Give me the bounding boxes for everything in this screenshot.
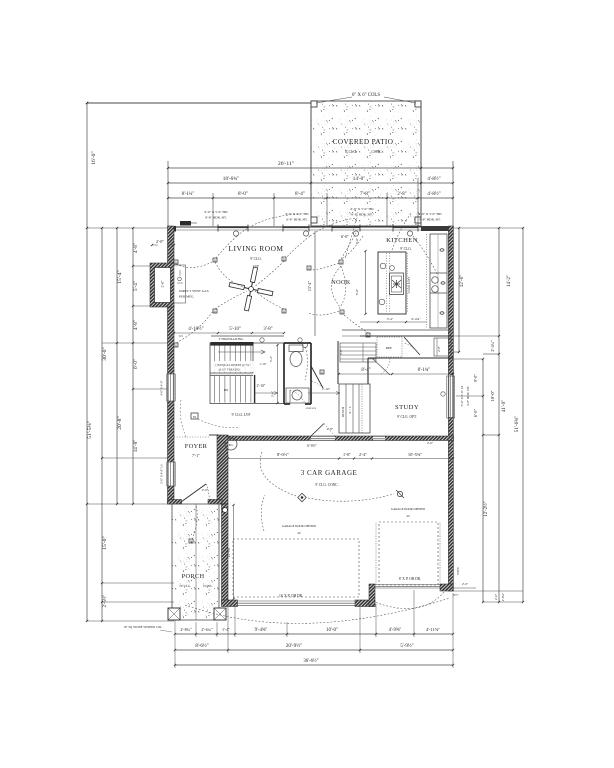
svg-text:2'-0": 2'-0" (156, 239, 164, 244)
svg-text:8'-8" HDR. HT.: 8'-8" HDR. HT. (419, 218, 441, 222)
svg-text:9' CLG. CONC.: 9' CLG. CONC. (315, 483, 338, 487)
svg-text:8'-0½": 8'-0½" (277, 452, 289, 457)
svg-text:15'-4": 15'-4" (307, 281, 312, 291)
svg-text:6'-0": 6'-0" (355, 288, 359, 295)
svg-text:14'-8": 14'-8" (133, 440, 139, 453)
svg-text:3'-0": 3'-0" (161, 280, 165, 287)
svg-text:1'-10": 1'-10" (259, 362, 267, 366)
svg-text:2'-8": 2'-8" (397, 192, 406, 197)
svg-text:CONC.: CONC. (372, 150, 383, 154)
svg-text:16' X 8' OH DR.: 16' X 8' OH DR. (279, 594, 303, 598)
svg-text:@ 10" TREADS): @ 10" TREADS) (218, 368, 239, 372)
svg-text:$: $ (283, 258, 285, 262)
svg-text:2'-0": 2'-0" (462, 582, 469, 586)
svg-text:5'-0" X 4'-0" LS: 5'-0" X 4'-0" LS (160, 464, 164, 484)
svg-text:8'-4": 8'-4" (361, 368, 370, 373)
svg-text:4'-8": 4'-8" (133, 243, 139, 253)
svg-text:(16 EQUAL RISERS @ 7¾": (16 EQUAL RISERS @ 7¾" (216, 363, 252, 367)
svg-text:REF.: REF. (386, 346, 393, 350)
svg-text:5'-4": 5'-4" (133, 281, 139, 291)
svg-text:3' HIGH RAILING: 3' HIGH RAILING (219, 337, 245, 341)
svg-text:9'-4⅝": 9'-4⅝" (255, 628, 268, 633)
svg-text:8'-4": 8'-4" (295, 191, 305, 197)
svg-text:9'-0": 9'-0" (473, 374, 478, 382)
svg-text:16'-0": 16'-0" (91, 151, 97, 165)
svg-text:9'-0" X 5'-0" HD: 9'-0" X 5'-0" HD (419, 212, 442, 216)
svg-text:2'-0": 2'-0" (202, 488, 209, 492)
svg-text:6'-0": 6'-0" (473, 409, 478, 417)
svg-text:14'-2": 14'-2" (507, 275, 512, 287)
svg-text:10' CLG.: 10' CLG. (179, 584, 191, 588)
svg-text:26'-11": 26'-11" (278, 161, 294, 167)
svg-text:$: $ (175, 344, 177, 348)
svg-text:SHELVES: SHELVES (306, 407, 317, 410)
svg-text:2'-4": 2'-4" (359, 452, 367, 457)
svg-text:1'-4": 1'-4" (222, 627, 230, 632)
svg-text:8'-6½": 8'-6½" (195, 644, 208, 649)
svg-text:2'-4¾": 2'-4¾" (490, 340, 495, 351)
svg-text:8'-8" HDR. HT.: 8'-8" HDR. HT. (205, 216, 227, 220)
svg-text:6'-8" HDR. HT.: 6'-8" HDR. HT. (286, 218, 308, 222)
svg-text:18'-6¾": 18'-6¾" (223, 175, 239, 182)
svg-text:6'-4¾": 6'-4¾" (411, 317, 421, 321)
svg-text:13'-9¾": 13'-9¾" (227, 546, 231, 558)
svg-text:8'-1¼": 8'-1¼" (182, 192, 195, 197)
svg-text:4'-8" HDR. HT.: 4'-8" HDR. HT. (466, 386, 470, 406)
svg-text:BENCH: BENCH (341, 406, 345, 417)
svg-text:$: $ (283, 310, 285, 314)
svg-text:2'-10": 2'-10" (322, 387, 331, 391)
svg-text:9' CLG. LVP: 9' CLG. LVP (232, 413, 251, 417)
svg-text:2'-5½": 2'-5½" (103, 595, 108, 608)
svg-text:4'-8½": 4'-8½" (427, 192, 440, 197)
svg-text:7'-8": 7'-8" (360, 191, 370, 197)
svg-text:2'-6¼": 2'-6¼" (201, 627, 212, 632)
svg-text:2'-0": 2'-0" (494, 593, 498, 600)
svg-text:4'-10½": 4'-10½" (188, 327, 203, 332)
svg-text:51'-6⅝": 51'-6⅝" (514, 416, 520, 432)
svg-text:15'-4": 15'-4" (117, 270, 123, 284)
svg-text:30'-0": 30'-0" (102, 347, 108, 361)
svg-text:STUDY: STUDY (395, 404, 419, 411)
svg-text:10'-0": 10'-0" (326, 628, 338, 633)
svg-text:6.5: 6.5 (179, 334, 183, 338)
svg-text:B.L: B.L (229, 443, 234, 447)
svg-text:2'-8¾": 2'-8¾" (180, 627, 191, 632)
svg-text:9' CLG.: 9' CLG. (250, 257, 262, 261)
svg-text:5'-4": 5'-4" (269, 355, 273, 362)
svg-text:SS: SS (193, 415, 197, 419)
svg-text:4'-11⅝": 4'-11⅝" (426, 627, 440, 632)
svg-text:6'-0": 6'-0" (133, 359, 139, 369)
svg-text:2'-8": 2'-8" (327, 427, 334, 431)
svg-text:10'-5⅝": 10'-5⅝" (408, 452, 422, 457)
svg-text:16" SQ STONE VENEER COL.: 16" SQ STONE VENEER COL. (123, 625, 162, 629)
svg-text:15'-0": 15'-0" (102, 536, 108, 550)
svg-text:7'-1": 7'-1" (192, 453, 200, 458)
svg-text:PORCH: PORCH (182, 573, 205, 580)
svg-text:CONC.: CONC. (203, 584, 213, 588)
svg-text:$: $ (321, 371, 323, 375)
svg-text:2'-8¼": 2'-8¼" (501, 592, 505, 601)
svg-text:1'-8": 1'-8" (343, 452, 351, 457)
svg-text:KITCHEN: KITCHEN (386, 237, 418, 244)
svg-text:8'-1¾": 8'-1¾" (418, 368, 431, 373)
svg-text:NOOK: NOOK (331, 279, 351, 286)
svg-text:5'-9½": 5'-9½" (400, 644, 413, 649)
svg-text:9' CLG. OPT.: 9' CLG. OPT. (397, 415, 417, 419)
svg-text:$: $ (308, 267, 310, 271)
svg-text:DN: DN (224, 388, 229, 392)
svg-text:2'-10": 2'-10" (257, 384, 266, 388)
svg-text:40: 40 (298, 531, 302, 535)
svg-text:2'-6": 2'-6" (427, 441, 434, 445)
svg-text:14'-0": 14'-0" (353, 176, 366, 182)
svg-text:PER MFG.: PER MFG. (179, 295, 194, 299)
svg-text:51'-5⅝": 51'-5⅝" (87, 421, 93, 439)
svg-text:3'-0": 3'-0" (271, 390, 275, 397)
svg-text:5'-8": 5'-8" (339, 348, 343, 355)
svg-text:4'-8": 4'-8" (133, 320, 139, 330)
svg-text:$: $ (214, 310, 216, 314)
svg-text:3'-8": 3'-8" (263, 327, 272, 332)
svg-text:41'-0": 41'-0" (501, 400, 507, 413)
svg-text:5'-10": 5'-10" (229, 327, 241, 332)
svg-text:R + S: R + S (348, 406, 352, 413)
svg-text:12'-6": 12'-6" (459, 275, 465, 288)
svg-text:LIVING ROOM: LIVING ROOM (229, 244, 284, 253)
svg-text:6'-0": 6'-0" (341, 234, 349, 239)
svg-text:$: $ (340, 261, 342, 265)
svg-text:FOYER: FOYER (185, 443, 208, 450)
svg-text:2'-0": 2'-0" (437, 345, 441, 352)
svg-text:4'-8½": 4'-8½" (427, 177, 440, 182)
svg-text:6" X 6" COLS: 6" X 6" COLS (352, 93, 380, 98)
svg-text:COOK UNIT: COOK UNIT (407, 277, 411, 294)
svg-text:$: $ (341, 311, 343, 315)
svg-text:WDW: WDW (456, 567, 460, 575)
svg-text:9'-0" X 5'-0" HD: 9'-0" X 5'-0" HD (205, 210, 228, 214)
svg-text:GARAGE DOOR OPENER: GARAGE DOOR OPENER (282, 524, 316, 528)
svg-text:3'-0": 3'-0" (355, 237, 359, 244)
svg-text:10'-0": 10'-0" (490, 390, 495, 401)
svg-text:8' CLG.: 8' CLG. (345, 150, 357, 154)
svg-text:12'-2½": 12'-2½" (484, 501, 489, 516)
svg-text:9' CLG.: 9' CLG. (400, 247, 412, 251)
svg-text:6'-8" HDR. HT.: 6'-8" HDR. HT. (351, 213, 373, 217)
svg-text:$: $ (367, 334, 369, 338)
svg-text:4'-9⅝": 4'-9⅝" (389, 628, 402, 633)
svg-text:40: 40 (407, 514, 411, 518)
svg-text:GARAGE DOOR OPENER: GARAGE DOOR OPENER (391, 507, 425, 511)
svg-text:3 CAR GARAGE: 3 CAR GARAGE (301, 469, 358, 477)
svg-text:4'-0" X 4'-0": 4'-0" X 4'-0" (160, 380, 164, 396)
svg-text:8' X 8' OH DR.: 8' X 8' OH DR. (399, 577, 421, 581)
svg-text:6'-0" X 5'-0" HD: 6'-0" X 5'-0" HD (351, 207, 374, 211)
svg-text:20'-8": 20'-8" (117, 416, 123, 430)
svg-text:COVERED PATIO: COVERED PATIO (333, 138, 394, 146)
svg-text:6'-0½": 6'-0½" (307, 444, 317, 448)
svg-text:36'-6½": 36'-6½" (303, 659, 318, 664)
svg-text:5'-0" X 5'-0" LS: 5'-0" X 5'-0" LS (460, 385, 464, 406)
svg-text:3'-4": 3'-4" (387, 317, 394, 321)
svg-text:8'-0": 8'-0" (238, 191, 248, 197)
svg-text:20'-9½": 20'-9½" (286, 642, 302, 649)
svg-text:9½": 9½" (453, 593, 459, 597)
svg-text:DIRECT VENT GAS: DIRECT VENT GAS (179, 289, 209, 293)
